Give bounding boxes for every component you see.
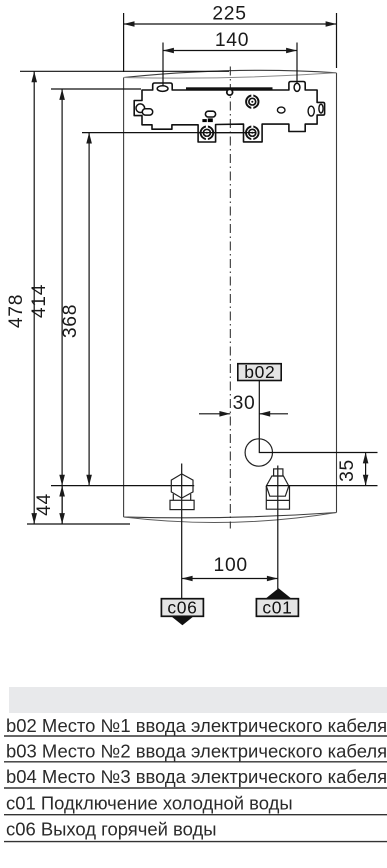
dimension 30 line right xyxy=(259,413,288,415)
dimension 140 arrow right xyxy=(286,48,297,54)
c01 label pointer triangle xyxy=(265,588,293,599)
dimension 368 arrow top xyxy=(86,133,92,144)
center line (dash-dot) xyxy=(229,67,231,529)
dimension 414 arrow bottom (at 485.6) xyxy=(59,475,65,486)
bracket thick top bar xyxy=(186,87,273,90)
svg-text:140: 140 xyxy=(215,30,249,51)
unit bottom seam xyxy=(124,513,337,518)
dimension 225 extension right xyxy=(336,13,338,68)
svg-text:b03 Место №2 ввода электрическ: b03 Место №2 ввода электрического кабеля xyxy=(6,741,387,762)
c06 label pointer triangle xyxy=(170,615,195,625)
b02 label box xyxy=(238,364,281,381)
bracket cable slot b0x xyxy=(205,111,215,117)
bracket right tab slot xyxy=(319,104,323,113)
svg-text:b04 Место №3 ввода электрическ: b04 Место №3 ввода электрического кабеля xyxy=(6,766,387,787)
svg-text:44: 44 xyxy=(34,493,55,516)
svg-text:100: 100 xyxy=(214,555,248,576)
fitting c06 neck xyxy=(173,494,190,500)
fitting c06 hexagon xyxy=(171,474,193,498)
small circle on centerline xyxy=(227,89,233,95)
dimension 100 arrow left xyxy=(182,576,193,582)
dimension 225 arrow left xyxy=(124,21,135,27)
dimension 225 arrow right xyxy=(326,21,337,27)
svg-text:c06 Выход горячей воды: c06 Выход горячей воды xyxy=(6,819,216,840)
dimension 35 line xyxy=(365,453,367,486)
b02 leader line vertical xyxy=(258,381,260,453)
dimension 225 line xyxy=(124,23,337,25)
c01 label box xyxy=(256,599,298,617)
fittings reference extension line left (y=485.6) xyxy=(51,485,194,487)
dimension 368 extension top xyxy=(82,132,256,134)
dimension 100 arrow right xyxy=(267,576,278,582)
unit top cap upper arc xyxy=(124,70,337,77)
dimension 140 extension right xyxy=(296,43,298,90)
dimension 414 arrow top xyxy=(59,89,65,100)
fitting c06 flange xyxy=(170,500,194,509)
dimension 35 arrow bottom xyxy=(363,475,369,486)
legend header bar xyxy=(9,687,387,713)
screw gland upper right xyxy=(246,94,258,109)
dimension 414 line xyxy=(61,89,63,524)
dimension 44 arrow top xyxy=(59,486,65,497)
dimension 478 arrow top xyxy=(31,71,37,82)
dimension 100 line xyxy=(182,578,278,580)
fitting c06 centerline xyxy=(181,464,183,599)
dimension 35 arrow top xyxy=(363,453,369,464)
screw gland bottom left xyxy=(201,125,214,140)
dimension 30 arrow right xyxy=(259,411,270,417)
dimension 140 arrow left xyxy=(163,48,174,54)
bracket tab1 oval slot xyxy=(157,86,168,92)
dimension 225 extension left xyxy=(123,13,125,72)
bracket keyhole slot xyxy=(142,109,152,115)
bracket oval hole center-right xyxy=(277,107,285,113)
dimension 478 extension top xyxy=(20,70,229,72)
svg-text:414: 414 xyxy=(29,284,50,318)
fitting c01 top square xyxy=(274,469,283,476)
bracket tab2 oval slot xyxy=(294,83,300,91)
svg-text:b02 Место №1 ввода электрическ: b02 Место №1 ввода электрического кабеля xyxy=(6,715,387,736)
dimension 44 line xyxy=(61,486,63,524)
svg-text:c06: c06 xyxy=(167,598,197,618)
svg-text:c01 Подключение холодной воды: c01 Подключение холодной воды xyxy=(6,793,293,814)
svg-text:368: 368 xyxy=(60,304,81,338)
mounting bracket outline xyxy=(134,82,324,143)
fittings reference extension line right xyxy=(266,485,377,487)
svg-text:35: 35 xyxy=(337,459,358,482)
unit bottom cap lower arc xyxy=(124,513,337,523)
unit left edge xyxy=(123,78,125,518)
unit top cap seam xyxy=(124,73,337,78)
hole b02 horizontal reference line xyxy=(259,452,378,454)
dimension 478 line xyxy=(33,71,35,524)
bottom reference extension line (y=524) xyxy=(27,523,130,525)
unit right edge xyxy=(336,73,338,513)
fitting c01 hexagon xyxy=(266,476,289,496)
bracket keyhole circle xyxy=(136,104,145,113)
svg-text:c01: c01 xyxy=(262,598,292,618)
svg-text:225: 225 xyxy=(212,4,246,25)
dimension 368 line xyxy=(88,133,90,486)
dimension 44 arrow bottom xyxy=(59,513,65,524)
svg-text:478: 478 xyxy=(6,294,27,328)
dimension 368 arrow bottom xyxy=(86,475,92,486)
bracket tiny label under slot xyxy=(202,119,206,122)
dimension 30 arrow left xyxy=(219,411,230,417)
hole b02 circle xyxy=(245,439,272,466)
svg-text:30: 30 xyxy=(233,393,256,414)
dimension 140 line xyxy=(163,50,297,52)
dimension 140 extension left xyxy=(162,43,164,90)
bracket egg hole right xyxy=(308,106,314,116)
svg-text:b02: b02 xyxy=(244,362,275,382)
extension line through bottom glands xyxy=(199,132,257,134)
screw gland bottom right xyxy=(246,125,259,140)
dimension 30 line left xyxy=(199,413,230,415)
fitting c01 centerline xyxy=(277,466,279,590)
dimension 478 arrow bottom xyxy=(31,513,37,524)
c06 label box xyxy=(161,599,203,617)
dimension 414 extension top xyxy=(51,88,141,90)
fitting c01 body xyxy=(266,486,289,509)
